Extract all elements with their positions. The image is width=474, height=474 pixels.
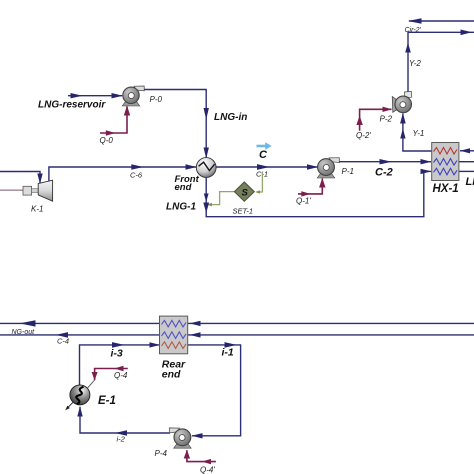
svg-text:end: end (175, 182, 192, 193)
arrow tick on LNG-reservoir stream (71, 93, 83, 98)
svg-text:i-2: i-2 (117, 435, 126, 444)
arrow Y-2 right near edge (461, 30, 473, 36)
wire HX-1 bottom pass outlet right (459, 170, 474, 172)
heat exchanger HX-1 (432, 143, 459, 181)
arrow into K-1 (37, 174, 42, 184)
arrow into Rear end middle pass (190, 332, 201, 337)
arrow C-4 left (56, 332, 68, 338)
arrow tick i-1 (225, 342, 237, 348)
arrow tick LNG-1 (204, 194, 209, 203)
svg-text:C-4: C-4 (57, 336, 69, 345)
wire Cir-2 from right edge (409, 20, 474, 22)
arrow NG-out big left (20, 320, 36, 326)
wire i-3 from E-1 to Rear end (80, 345, 160, 385)
arrow big LNG-1 down at corner (203, 203, 209, 214)
wire HX-1 middle pass outlet right (459, 161, 474, 163)
arrow tick Y-1 (400, 129, 405, 139)
svg-text:C-2: C-2 (375, 166, 393, 178)
svg-text:i-3: i-3 (111, 347, 123, 359)
arrow into HX-1 middle pass (421, 159, 432, 164)
arrow into E-1 bottom (77, 406, 82, 416)
wire Front end to P-1 (stream C / C-1) (216, 166, 318, 168)
svg-text:LNG-reservoir: LNG-reservoir (38, 100, 106, 111)
arrow into P-1 (307, 164, 318, 169)
arrow into P-4 (192, 433, 203, 438)
arrow tick i-3 (112, 342, 124, 348)
energy stream Q-4 (95, 369, 128, 381)
arrow big after C-1 (257, 164, 270, 170)
arrow tick i-2 (115, 430, 127, 436)
wire C-4 line through Rear end middle pass (0, 334, 474, 336)
energy stream Q-4' (187, 450, 216, 461)
arrow into HX-1 bottom pass (421, 169, 432, 174)
wire LNG-reservoir inlet to P-0 (68, 95, 122, 97)
svg-text:Q-4: Q-4 (114, 371, 128, 380)
arrow into Front end left (186, 164, 197, 169)
pump P-1 (317, 158, 339, 178)
svg-text:P-0: P-0 (150, 95, 163, 104)
svg-text:end: end (162, 368, 181, 380)
arrow tick C-6 (131, 164, 143, 169)
svg-text:Cir-2': Cir-2' (405, 27, 422, 34)
energy shaft line into K-1 (0, 189, 24, 191)
wire i-2 from P-4 to E-1 (80, 407, 170, 433)
svg-text:LN: LN (466, 176, 474, 188)
wire K-1 outlet up to C-6 line (49, 167, 197, 181)
svg-text:C: C (259, 149, 268, 161)
wire C-2 from P-1 to HX-1 (339, 161, 431, 163)
heat exchanger Rear end (160, 316, 188, 354)
pump P-2 (392, 91, 412, 112)
wire Y-1 from HX-1 top pass to P-2 (403, 114, 432, 152)
wire NG-out line through Rear end top pass (0, 322, 474, 324)
heat exchanger Front end (196, 158, 216, 178)
arrow tick Y-2 up (405, 43, 411, 53)
wire K-1 inlet from left (0, 172, 40, 184)
cooler E-1 (65, 385, 90, 410)
svg-text:LNG-1: LNG-1 (166, 202, 196, 213)
wire LNG-1 from Front end down and to HX-1 bottom (206, 171, 431, 216)
wire into HX-1 top pass from right edge (460, 150, 474, 152)
pump P-0 (122, 86, 144, 106)
svg-text:HX-1: HX-1 (433, 183, 459, 195)
svg-text:P-4: P-4 (155, 449, 168, 458)
arrow into Rear end top pass (190, 321, 201, 326)
svg-text:Q-2': Q-2' (356, 131, 371, 140)
svg-text:Y-2: Y-2 (409, 59, 421, 68)
energy stream Q-0 (100, 107, 127, 134)
svg-text:SET-1: SET-1 (233, 206, 254, 215)
arrow into Rear end bottom pass (150, 342, 161, 347)
svg-text:Y-1: Y-1 (413, 129, 425, 138)
svg-text:S: S (242, 188, 249, 199)
arrow into pump P-0 (112, 93, 124, 98)
wire P-0 outlet to LNG-in corner (144, 90, 206, 159)
arrow into P-2 bottom (400, 113, 406, 124)
arrow Cir-2 left (408, 18, 422, 23)
arrow tick LNG-in down (204, 108, 209, 120)
setter SET-1 (207, 172, 262, 207)
svg-text:Q-0: Q-0 (100, 136, 114, 145)
arrow into Front end top (204, 148, 209, 159)
svg-text:Q-1': Q-1' (296, 196, 311, 205)
svg-text:LNG-in: LNG-in (214, 112, 247, 123)
wire i-1 from Rear end to P-4 (188, 345, 241, 436)
svg-text:Q-4': Q-4' (200, 466, 215, 474)
arrow tick C-2 (380, 159, 392, 164)
arrow into HX-1 top pass (460, 148, 470, 153)
svg-text:C-6: C-6 (130, 170, 143, 179)
stream C cyan arrow (257, 142, 272, 149)
svg-text:K-1: K-1 (31, 204, 43, 213)
compressor K-1 (23, 180, 53, 201)
svg-text:P-2: P-2 (380, 114, 393, 123)
svg-text:i-1: i-1 (222, 347, 234, 359)
svg-text:E-1: E-1 (98, 395, 116, 407)
energy stream Q-2' (360, 109, 392, 130)
pump P-4 (169, 428, 191, 448)
energy stream Q-1' (298, 179, 322, 194)
svg-text:P-1: P-1 (342, 167, 354, 176)
wire Y-2 from P-2 up and right (408, 32, 474, 91)
